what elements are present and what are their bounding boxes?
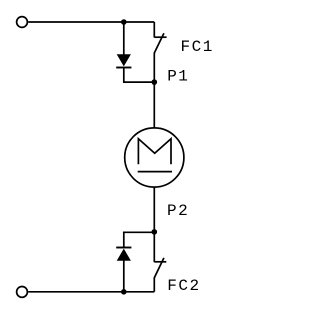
wire diode D1 cathode down — [124, 67, 155, 82]
switch FC1 — [154, 22, 166, 82]
diode D1 — [116, 54, 131, 67]
node junction top — [121, 19, 127, 25]
wire motor to node P2 — [153, 187, 155, 232]
svg-text:P1: P1 — [167, 67, 189, 85]
switch FC2 — [154, 232, 166, 291]
wire bottom horizontal — [28, 291, 154, 293]
wire node P2 to diode D2 — [124, 232, 155, 247]
wire node P1 to motor — [153, 82, 155, 128]
node junction bottom — [121, 289, 127, 295]
terminal T2 (bottom-left) — [17, 287, 28, 298]
wire diode D1 anode — [123, 22, 125, 55]
node P1 — [152, 79, 158, 85]
terminal T1 (top-left) — [17, 17, 28, 28]
svg-text:FC1: FC1 — [181, 38, 214, 56]
svg-text:FC2: FC2 — [167, 277, 200, 295]
wire diode D2 anode down — [123, 260, 125, 292]
motor M1 — [125, 128, 184, 187]
diode D2 — [116, 248, 131, 261]
svg-text:P2: P2 — [167, 202, 189, 220]
wire top horizontal — [28, 21, 154, 23]
node P2 — [152, 229, 158, 235]
